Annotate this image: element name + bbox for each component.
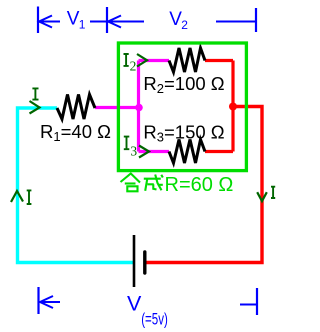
label I2 — [124, 54, 129, 66]
svg-text:R1=40 Ω: R1=40 Ω — [40, 121, 111, 144]
dimension V(bottom): right tick bar — [256, 288, 258, 315]
svg-text:R3=150 Ω: R3=150 Ω — [143, 121, 224, 144]
wire magenta top arm to R2 — [139, 59, 170, 62]
dimension V(bottom): right segment — [240, 304, 256, 306]
dimension V1: right segment — [90, 21, 106, 23]
arrow for I (right-pointing) on cyan wire — [30, 101, 40, 114]
dimension V2: right segment — [216, 21, 255, 23]
svg-text:V: V — [127, 292, 142, 316]
svg-text:R2=100 Ω: R2=100 Ω — [143, 73, 224, 96]
label gousei (combined) R=60 Ohm : kanji GOU drawn as strokes — [121, 174, 141, 192]
wire red vertical bus inside box — [231, 61, 234, 152]
arrow up (current I on left wire) — [11, 191, 23, 202]
dimension V(bottom): left arrow — [40, 296, 60, 308]
resistor R1 zigzag — [57, 95, 95, 120]
svg-text:2: 2 — [130, 59, 137, 74]
arrow for I2 (right-pointing) — [137, 54, 147, 67]
svg-text:3: 3 — [130, 143, 137, 158]
label I3 — [124, 137, 130, 150]
svg-text:(=5v): (=5v) — [141, 310, 168, 329]
dimension V(bottom): left tick bar — [37, 287, 39, 314]
label I (left wire) — [27, 190, 32, 204]
wire magenta vertical branch bus — [137, 61, 140, 152]
label I (right wire) — [271, 187, 275, 198]
resistor R2 zigzag — [169, 48, 205, 72]
svg-text:1: 1 — [79, 18, 86, 32]
wire red: junction out to outer right vertical and down to battery — [146, 107, 262, 263]
svg-text:R=60 Ω: R=60 Ω — [165, 174, 234, 196]
wire cyan: left loop from R1 left end down and along bottom to battery — [18, 108, 134, 263]
dimension V1: left tick bar — [37, 7, 39, 34]
arrow for I3 (right-pointing) — [139, 146, 149, 158]
dimension: right tick bar — [255, 8, 257, 32]
resistor R3 zigzag — [169, 140, 205, 164]
wire red: R2 right end to right bus — [205, 59, 233, 62]
wire magenta bottom arm to R3 — [139, 150, 170, 153]
battery positive plate (long) — [133, 235, 136, 287]
node: red junction dot — [229, 103, 237, 111]
dimension V2: left arrow — [108, 16, 144, 28]
node: magenta junction dot — [135, 104, 143, 112]
dimension: middle tick bar — [106, 7, 108, 33]
label gousei: kanji SEI drawn as strokes — [144, 175, 163, 191]
dimension V1: left arrow — [39, 16, 60, 28]
wire magenta: R1 right end to parallel-branch vertical — [95, 106, 139, 109]
label I (top left current) — [32, 88, 38, 99]
wire red: R3 right end to right bus — [205, 150, 233, 153]
arrow down (current I on right wire) — [257, 192, 267, 201]
svg-text:2: 2 — [181, 18, 188, 32]
green box around parallel combination — [118, 43, 246, 171]
battery negative plate (short) — [143, 252, 146, 273]
